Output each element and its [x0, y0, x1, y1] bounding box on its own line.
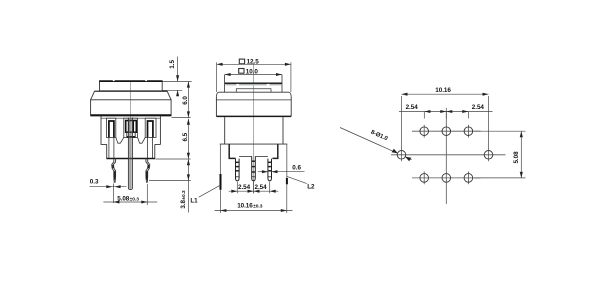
right snap leg — [286, 144, 288, 178]
svg-text:2.54: 2.54 — [238, 184, 251, 191]
ext lines 5.08 — [474, 130, 526, 132]
label 8-dia-1.0 leader — [340, 128, 397, 154]
hole A2 — [442, 127, 451, 136]
dim 2.54 line — [229, 190, 279, 192]
dim 6.5 line+arrows — [187, 119, 189, 159]
svg-text:L2: L2 — [307, 183, 315, 190]
svg-text:10.16: 10.16 — [435, 87, 451, 94]
LEFT-VIEW — [91, 80, 172, 190]
dim 1.5 line+arrows — [177, 57, 179, 82]
hole A3 — [464, 127, 473, 136]
ext line base bottom — [156, 158, 191, 160]
left slot outline — [106, 118, 115, 137]
housing top line — [101, 117, 160, 119]
body side right — [290, 97, 292, 117]
svg-text:2.54: 2.54 — [406, 104, 419, 111]
dim 10.16 line — [402, 93, 489, 95]
body corner left — [216, 92, 218, 97]
body bottom edge thick — [91, 114, 172, 116]
dim 3.8 line+arrows — [187, 159, 189, 212]
ext line right 12.5 — [290, 62, 292, 92]
svg-text:6.0: 6.0 — [182, 96, 189, 105]
left snap leg — [219, 144, 221, 174]
cap trapezoid (front) — [91, 91, 172, 99]
dim 2.54 ticks — [423, 112, 425, 119]
right slot thick U contact — [148, 121, 153, 137]
dim 12.5 line — [217, 63, 291, 65]
dim 6.0 line+arrows — [187, 82, 189, 118]
footprint vertical centerline — [445, 108, 447, 204]
body corner right — [289, 92, 291, 97]
bottom row line — [412, 177, 481, 179]
left slot thick U contact — [109, 121, 114, 137]
hole B1 — [420, 174, 429, 183]
ext line body bottom — [172, 117, 191, 119]
cap top edge — [94, 90, 167, 92]
lower housing left wall — [100, 116, 102, 145]
svg-text:8-Ø1.0: 8-Ø1.0 — [370, 130, 389, 143]
base block (front) — [107, 144, 155, 158]
svg-text:0.6: 0.6 — [292, 164, 301, 171]
middle slot outline — [124, 118, 138, 137]
ext line cap top — [163, 89, 183, 91]
svg-text:2.54: 2.54 — [472, 104, 485, 111]
dim 10.16 line — [215, 210, 293, 212]
base flange line — [220, 143, 288, 145]
base bottom between pins — [239, 155, 252, 157]
button plunger lid (front) — [100, 81, 163, 91]
plunger side right — [281, 75, 283, 92]
dim 10.0 square symbol — [239, 69, 244, 74]
dim 12.5 square symbol — [239, 59, 244, 64]
svg-text:12.5: 12.5 — [247, 59, 260, 66]
leg ext lines — [219, 190, 221, 213]
body mid line — [216, 99, 292, 101]
L1 leader — [199, 185, 221, 197]
svg-text:0.3: 0.3 — [90, 179, 99, 186]
dim 10.0 line — [225, 74, 282, 76]
hole B3 — [464, 174, 473, 183]
plunger lid top edge thick — [99, 80, 162, 82]
MIDDLE-VIEW — [216, 59, 292, 194]
ext line lid top — [163, 80, 192, 82]
svg-text:2.54: 2.54 — [255, 184, 268, 191]
svg-text:L1: L1 — [190, 198, 198, 205]
center long pin — [128, 118, 132, 190]
RIGHT-VIEW-DIMENSIONS — [340, 87, 526, 178]
plunger gray top band — [225, 84, 281, 86]
ext line pin tip — [149, 179, 191, 181]
top row line — [412, 130, 481, 132]
base inner step right — [272, 144, 277, 158]
body rect (front) — [91, 100, 172, 116]
housing bottom notched profile — [116, 137, 145, 143]
plunger inner step — [236, 89, 271, 92]
ext line left mounting hole — [401, 96, 403, 161]
mounting hole left — [397, 151, 406, 160]
middle slot inner bars — [128, 121, 130, 133]
RIGHT-VIEW — [391, 108, 506, 204]
dim 0.3 line and arrows — [90, 186, 127, 188]
neck side right — [282, 117, 284, 144]
contact strips continuing below slots — [108, 137, 110, 158]
mounting hole right — [484, 151, 493, 160]
pin left (side view) — [236, 159, 240, 181]
footprint horizontal centerline — [391, 154, 506, 156]
left bent pin — [112, 159, 115, 183]
center pin inner lines — [129, 118, 131, 189]
svg-text:1.5: 1.5 — [169, 60, 176, 69]
lower housing right wall — [159, 116, 161, 145]
body bottom edge — [216, 115, 291, 117]
hole B2 — [442, 174, 451, 183]
right slot outline — [145, 118, 156, 137]
pin extension lines — [112, 184, 114, 204]
centerline front view — [130, 81, 132, 190]
pin center (side view) — [252, 156, 256, 181]
middle slot thick frame — [126, 121, 137, 133]
neck side left — [224, 117, 226, 144]
svg-text:5.08: 5.08 — [513, 151, 520, 164]
centerline side view — [253, 63, 255, 194]
hole tick marks vertical — [423, 125, 425, 138]
ext line right mounting hole — [488, 96, 490, 161]
dim 5.08 line — [520, 131, 522, 178]
body side left — [215, 97, 217, 117]
dim 5.08 line — [103, 201, 157, 203]
svg-text:6.5: 6.5 — [182, 132, 189, 141]
svg-text:10.0: 10.0 — [246, 68, 259, 75]
plunger side left — [224, 75, 226, 92]
pin right (side view) — [268, 159, 272, 181]
right bent pin — [147, 159, 150, 183]
plunger top thick edge — [225, 82, 282, 84]
svg-text:10.16±0.3: 10.16±0.3 — [237, 202, 263, 209]
middle slot lower pocket — [127, 132, 135, 137]
hole A1 — [420, 127, 429, 136]
pin center ext lines — [236, 182, 238, 194]
ext line left 12.5 — [216, 62, 218, 92]
dim 0.6 lines+arrows — [258, 171, 268, 173]
body top edge — [218, 91, 289, 93]
L2 leader — [287, 176, 307, 183]
base inner step left — [229, 144, 235, 158]
dim 2.54 line — [399, 111, 493, 113]
svg-text:5.08±0.3: 5.08±0.3 — [117, 195, 139, 202]
LEFT-VIEW-DIMENSIONS — [90, 57, 192, 213]
MIDDLE-VIEW-DIMENSIONS — [190, 164, 315, 213]
svg-text:3.8±0.3: 3.8±0.3 — [180, 190, 187, 209]
